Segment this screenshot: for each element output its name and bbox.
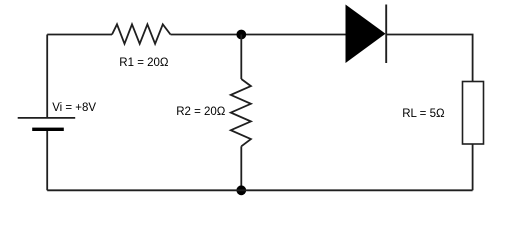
node A (top junction dot) <box>236 30 246 40</box>
wire RL to bottom wire <box>472 144 474 190</box>
resistor RL (box symbol) <box>463 82 484 145</box>
bottom wire <box>47 189 472 191</box>
diode D1 anode triangle <box>346 5 386 64</box>
svg-text:R2 = 20Ω: R2 = 20Ω <box>176 106 226 118</box>
wire bottom-left up to battery <box>46 131 48 190</box>
svg-text:R1 = 20Ω: R1 = 20Ω <box>119 57 169 69</box>
svg-text:RL = 5Ω: RL = 5Ω <box>402 108 445 120</box>
resistor R2 <box>231 79 251 146</box>
node B (bottom junction dot) <box>236 185 246 195</box>
diode D1 cathode bar <box>385 5 387 64</box>
resistor R1 <box>112 24 171 44</box>
battery V1 positive plate (thin) <box>18 117 75 119</box>
svg-text:Vi = +8V: Vi = +8V <box>52 102 96 114</box>
wire R2 to node B <box>240 146 242 190</box>
wire battery to top-left corner <box>46 35 48 118</box>
wire top-left: source to R1 <box>47 34 112 36</box>
wire diode to top-right corner <box>386 35 472 82</box>
battery V1 negative plate (thick) <box>32 128 64 131</box>
wire node A to R2 <box>240 35 242 80</box>
wire R1 to diode <box>171 34 346 36</box>
